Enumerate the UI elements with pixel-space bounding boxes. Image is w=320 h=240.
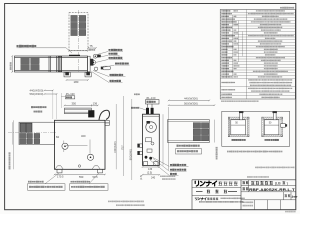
clearance mini drawing left (vertical flue) xyxy=(228,117,249,119)
svg-text:136: 136 xyxy=(93,102,98,106)
svg-text:(2.5): (2.5) xyxy=(140,175,143,180)
top view: grille hatch 2x2 xyxy=(21,58,30,64)
svg-text:757: 757 xyxy=(120,145,124,150)
svg-text:600(640): 600(640) xyxy=(113,141,117,152)
side view bottom dims xyxy=(143,166,160,168)
note above title block right xyxy=(255,167,257,169)
svg-text:800(840): 800(840) xyxy=(129,149,133,160)
left dim 25.5 rotated xyxy=(11,56,13,72)
flue opening dark line xyxy=(69,54,80,56)
shower hose curve xyxy=(99,110,110,120)
side view flue stubs xyxy=(146,108,149,114)
depth plan rect xyxy=(168,120,210,143)
flue duct dashed rect above top view xyxy=(69,13,88,51)
svg-text:free: free xyxy=(292,195,298,199)
depth plan grille hatch xyxy=(193,123,200,129)
side view leader labels xyxy=(170,164,172,166)
drawing sheet border frame xyxy=(5,4,296,210)
cell labels xyxy=(242,181,248,184)
spec table xyxy=(220,10,295,100)
top view: dark right band xyxy=(58,56,61,71)
svg-text:(2.5): (2.5) xyxy=(147,171,152,174)
svg-text:170.5: 170.5 xyxy=(57,174,64,178)
side view feet xyxy=(144,162,148,166)
bottom dims xyxy=(55,174,106,176)
depth plan right rotated dim xyxy=(214,120,216,143)
page number below frame xyxy=(285,211,287,212)
Rinnai logo katakana xyxy=(195,181,216,186)
left profile attachment with grille blocks xyxy=(19,122,55,144)
unit note top right xyxy=(280,7,282,9)
front panel circles xyxy=(62,143,68,149)
front view feet xyxy=(57,169,62,173)
depth plan labels below xyxy=(177,145,179,147)
note under table xyxy=(221,100,223,101)
left pipe fittings xyxy=(138,144,143,147)
svg-text:84: 84 xyxy=(56,135,59,139)
bottom leader boxed labels xyxy=(28,181,30,183)
dim 180 under feet xyxy=(67,79,89,81)
front right vertical dims xyxy=(115,104,117,169)
flue width dim xyxy=(69,50,88,52)
svg-text:560(W300): 560(W300) xyxy=(30,92,44,96)
svg-text:320: 320 xyxy=(81,134,86,138)
top view feet xyxy=(64,72,70,77)
small internal fittings xyxy=(146,138,152,142)
pilot window circle xyxy=(146,122,157,133)
mounting rail above unit xyxy=(65,108,92,114)
trapezoid feet marks xyxy=(55,166,63,170)
centerline through left attachment xyxy=(8,131,57,133)
front view main body xyxy=(55,120,106,169)
svg-text:440(W300): 440(W300) xyxy=(184,97,198,101)
notes bottom center xyxy=(108,201,110,203)
gaikan-zu row xyxy=(196,191,203,193)
top view: long body rectangle xyxy=(15,56,88,72)
dim 75 xyxy=(88,47,96,49)
svg-text:550: 550 xyxy=(79,175,84,179)
svg-text:): ) xyxy=(287,181,288,185)
svg-text:75: 75 xyxy=(90,44,94,48)
front left rotated dim xyxy=(13,120,15,169)
rinnai kabushiki line xyxy=(195,198,206,201)
svg-text:560(W300): 560(W300) xyxy=(184,101,198,105)
flue hatch bands xyxy=(71,15,78,21)
flue centerline xyxy=(78,10,80,72)
svg-text:240: 240 xyxy=(151,176,156,179)
jyutaku-kiki kanji xyxy=(218,182,237,186)
right bracket xyxy=(105,121,109,126)
label: standard rail (separately sold) xyxy=(31,106,33,108)
clearance mini drawing right (side exit) xyxy=(262,117,283,119)
svg-text:180: 180 xyxy=(74,80,79,84)
top view: right connection panel xyxy=(88,54,111,72)
svg-text:RBF-A80S2K-RR-L-T: RBF-A80S2K-RR-L-T xyxy=(249,187,295,192)
side view right vertical dims xyxy=(162,114,164,165)
tiny note above side view left xyxy=(134,94,136,96)
notes left of title block xyxy=(160,176,162,177)
label: flue attach xyxy=(17,45,19,47)
clearance diagrams box xyxy=(222,111,290,146)
svg-text:(LB: (LB xyxy=(275,181,281,185)
side view body xyxy=(143,114,160,165)
title block outline xyxy=(192,180,296,210)
svg-text:350: 350 xyxy=(72,102,77,106)
bullet note below clearance box xyxy=(227,151,229,153)
flue collar (black) xyxy=(88,110,94,117)
leader labels right of top view xyxy=(109,49,111,51)
